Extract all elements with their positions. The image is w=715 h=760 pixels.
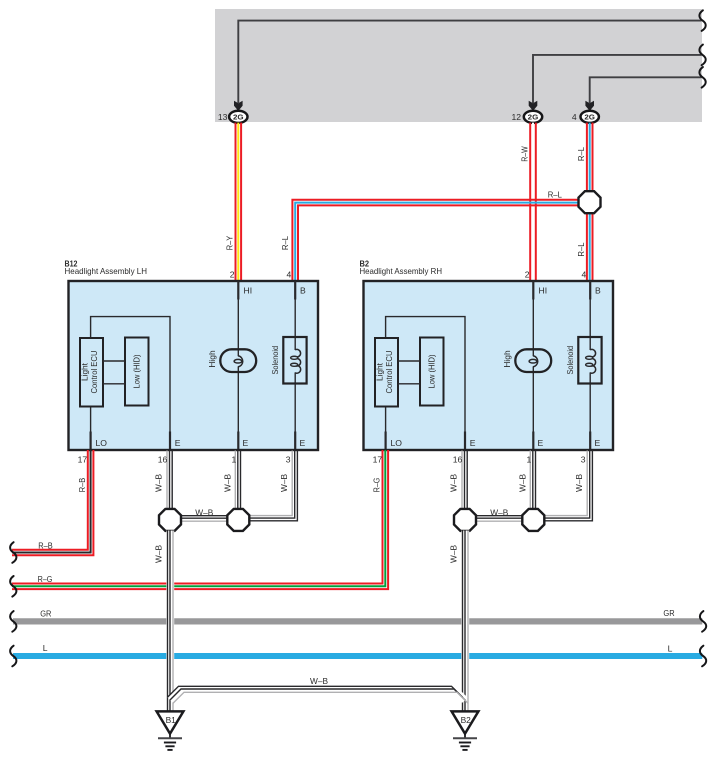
svg-text:R–L: R–L — [280, 236, 290, 250]
splice octagon right — [227, 509, 249, 531]
high beam bulb — [220, 349, 256, 372]
pin B tick — [294, 281, 296, 300]
ground point B1 — [157, 711, 184, 733]
wire break R-G left — [10, 576, 16, 597]
ECU to pin E(16) wire — [386, 317, 465, 449]
connector 2G pin 13 — [229, 111, 247, 123]
svg-text:L: L — [668, 643, 673, 653]
svg-text:Headlight Assembly LH: Headlight Assembly LH — [65, 266, 148, 276]
HI internal wire — [237, 282, 239, 449]
svg-text:1: 1 — [527, 455, 532, 465]
wire break L left — [10, 646, 16, 667]
wire W-B between splices — [180, 515, 229, 523]
svg-text:4: 4 — [582, 270, 587, 280]
svg-text:2G: 2G — [233, 113, 244, 122]
pin E16 tick — [464, 432, 466, 450]
wire break GR left — [10, 611, 16, 632]
svg-text:LO: LO — [391, 438, 403, 448]
svg-text:E: E — [595, 438, 601, 448]
LO internal wire — [90, 407, 92, 450]
svg-text:High: High — [207, 350, 217, 368]
svg-text:Control ECU: Control ECU — [384, 351, 394, 394]
svg-text:R–Y: R–Y — [225, 236, 235, 251]
svg-text:3: 3 — [581, 455, 586, 465]
wire break right mid — [699, 45, 705, 66]
wire W-B splice down to ground — [461, 531, 469, 712]
svg-text:E: E — [175, 438, 181, 448]
wire from 2G pin 4 up and right to break — [590, 77, 702, 103]
wire W-B joining both grounds — [170, 689, 465, 700]
LO internal wire — [385, 407, 387, 450]
svg-text:Low (HID): Low (HID) — [132, 354, 142, 388]
svg-text:R–W: R–W — [519, 146, 529, 162]
light control ECU box — [80, 338, 103, 407]
ECU to pin E(16) wire — [91, 317, 170, 449]
svg-text:17: 17 — [78, 455, 88, 465]
wire L (thick) — [13, 653, 702, 659]
svg-text:12: 12 — [511, 112, 521, 122]
wire R-L from 2G-4 to junction J — [586, 123, 588, 191]
wire W-B pin16 to splice — [166, 452, 173, 510]
svg-text:16: 16 — [453, 455, 463, 465]
splice octagon left — [159, 509, 181, 531]
svg-text:W–B: W–B — [279, 474, 289, 492]
pin E3 tick — [589, 432, 591, 450]
splice octagon left — [454, 509, 476, 531]
svg-text:HI: HI — [539, 286, 548, 296]
pin LO tick — [89, 432, 91, 450]
svg-text:W–B: W–B — [449, 545, 459, 563]
svg-text:2G: 2G — [528, 113, 539, 122]
svg-text:W–B: W–B — [154, 545, 164, 563]
solenoid box — [578, 337, 601, 384]
low (HID) box — [125, 338, 149, 406]
wire R-B from LH pin 17 to break — [12, 450, 88, 550]
svg-text:B1: B1 — [166, 715, 177, 725]
pin HI tick — [237, 281, 239, 300]
svg-text:L: L — [43, 643, 48, 653]
connector 2G pin 4 — [581, 111, 599, 123]
svg-text:E: E — [300, 438, 306, 448]
wire break GR right — [700, 611, 706, 632]
pin E1 tick — [237, 432, 239, 450]
svg-text:B: B — [300, 286, 306, 296]
pin E1 tick — [532, 432, 534, 450]
pin E3 tick — [294, 432, 296, 450]
svg-text:W–B: W–B — [449, 474, 459, 492]
svg-text:R–B: R–B — [77, 478, 87, 493]
svg-text:1: 1 — [232, 455, 237, 465]
svg-text:LO: LO — [96, 438, 108, 448]
wire R-L from LH pin 4 up/right to junction J — [292, 200, 578, 281]
svg-text:17: 17 — [373, 455, 383, 465]
svg-text:4: 4 — [572, 112, 577, 122]
solenoid coil — [294, 350, 297, 372]
svg-text:Low (HID): Low (HID) — [427, 354, 437, 388]
solenoid coil — [589, 350, 592, 372]
connector 2G pin 12 — [524, 111, 542, 123]
wire W-B pin1 to splice — [529, 452, 536, 510]
svg-text:R–L: R–L — [576, 147, 586, 161]
ground point B2 — [452, 711, 479, 733]
junction block (gray shaded area) — [215, 9, 702, 122]
svg-text:R–L: R–L — [548, 190, 562, 200]
B internal wire — [294, 282, 296, 449]
wire W-B between splices — [475, 515, 524, 523]
svg-text:Headlight Assembly RH: Headlight Assembly RH — [360, 266, 443, 276]
arrow into connector 2G-12 — [529, 101, 538, 111]
svg-text:2: 2 — [230, 270, 235, 280]
svg-text:W–B: W–B — [490, 507, 508, 517]
pin HI tick — [532, 281, 534, 300]
splice octagon right — [522, 509, 544, 531]
arrow into connector 2G-13 — [234, 101, 243, 111]
svg-text:High: High — [502, 350, 512, 368]
junction J (octagon splice) — [579, 191, 601, 213]
wire W-B splice down to ground — [166, 531, 174, 712]
high beam bulb — [515, 349, 551, 372]
svg-text:2: 2 — [525, 270, 530, 280]
svg-text:4: 4 — [287, 270, 292, 280]
wire R-L from junction J to RH pin 4 — [586, 214, 588, 282]
svg-text:16: 16 — [158, 455, 168, 465]
svg-text:W–B: W–B — [154, 474, 164, 492]
svg-text:GR: GR — [40, 609, 51, 619]
wire W-B pin3 bend to splice — [249, 452, 295, 519]
low (HID) box — [420, 338, 444, 406]
svg-text:R–G: R–G — [38, 574, 53, 584]
wire break right top — [699, 10, 705, 31]
svg-text:13: 13 — [218, 112, 228, 122]
wire break right low — [699, 67, 705, 88]
svg-text:2G: 2G — [584, 113, 595, 122]
arrow into connector 2G-4 — [585, 101, 594, 111]
HI internal wire — [532, 282, 534, 449]
svg-text:B2: B2 — [461, 715, 472, 725]
svg-text:W–B: W–B — [518, 474, 528, 492]
wire W-B pin1 to splice — [234, 452, 241, 510]
svg-text:Solenoid: Solenoid — [565, 346, 575, 375]
svg-text:B: B — [595, 286, 601, 296]
wire from 2G pin 13 up and right to break — [238, 21, 701, 103]
svg-text:Light: Light — [80, 362, 90, 381]
ECU-HID link wires — [398, 360, 420, 362]
svg-text:E: E — [243, 438, 249, 448]
svg-text:E: E — [538, 438, 544, 448]
svg-text:E: E — [470, 438, 476, 448]
svg-text:W–B: W–B — [574, 474, 584, 492]
light control ECU box — [375, 338, 398, 407]
svg-text:W–B: W–B — [310, 676, 328, 686]
svg-text:3: 3 — [286, 455, 291, 465]
pin LO tick — [385, 432, 387, 450]
svg-text:R–L: R–L — [576, 242, 586, 256]
wire R-W from 2G-12 to RH pin 2 — [529, 123, 531, 281]
svg-text:Control ECU: Control ECU — [89, 351, 99, 394]
solenoid box — [283, 337, 306, 384]
svg-text:W–B: W–B — [195, 507, 213, 517]
wire break L right — [700, 646, 706, 667]
ECU-HID link wires — [103, 360, 125, 362]
wire R-G from RH pin 17 to break — [12, 450, 383, 584]
pin E16 tick — [169, 432, 171, 450]
wire from 2G pin 12 up and right to break — [533, 55, 702, 103]
svg-text:W–B: W–B — [223, 474, 233, 492]
svg-text:GR: GR — [663, 608, 674, 618]
svg-text:R–G: R–G — [372, 477, 382, 492]
headlight assembly B2 outline — [364, 281, 614, 450]
wire W-B pin3 bend to splice — [544, 452, 590, 519]
wire GR (thick) — [13, 618, 702, 624]
wire W-B pin16 to splice — [461, 452, 468, 510]
headlight assembly B12 outline — [69, 281, 319, 450]
pin B tick — [589, 281, 591, 300]
wire R-Y from 2G-13 to LH pin 2 — [235, 123, 237, 281]
svg-text:HI: HI — [244, 286, 253, 296]
wire break R-B left — [10, 542, 16, 563]
svg-text:R–B: R–B — [38, 540, 53, 550]
svg-text:Light: Light — [375, 362, 385, 381]
svg-text:Solenoid: Solenoid — [270, 346, 280, 375]
B internal wire — [589, 282, 591, 449]
